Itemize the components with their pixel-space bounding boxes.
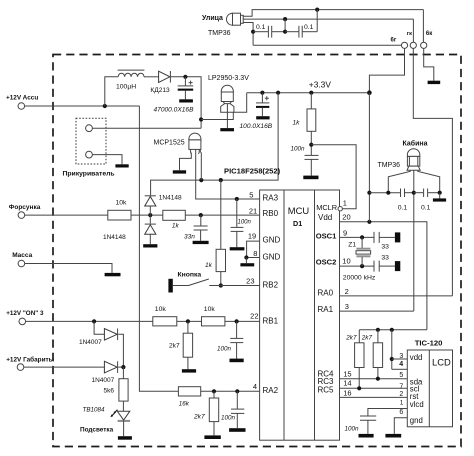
- svg-text:Форсунка: Форсунка: [9, 204, 41, 211]
- resistor 1k (MCLR pull-up): [293, 93, 316, 156]
- svg-text:vlcd: vlcd: [410, 400, 424, 409]
- capacitor 47000.0X16B electrolytic: [154, 77, 195, 114]
- svg-text:100n: 100n: [238, 220, 252, 226]
- wire inductor to diode: [144, 76, 159, 78]
- wire street pin3 vdd down: [243, 23, 253, 46]
- svg-text:7: 7: [399, 383, 403, 390]
- svg-text:5: 5: [399, 372, 403, 379]
- svg-text:GND: GND: [263, 253, 281, 262]
- node cabin ground end: [438, 191, 442, 195]
- svg-text:RA3: RA3: [263, 194, 279, 203]
- svg-text:100µH: 100µH: [116, 84, 136, 91]
- svg-text:ТВ1084: ТВ1084: [83, 406, 106, 413]
- wire cabin left leg: [388, 170, 410, 192]
- svg-text:21: 21: [249, 206, 257, 215]
- wire 10k-10k: [177, 320, 202, 322]
- svg-text:100n: 100n: [217, 345, 232, 352]
- svg-text:Z1: Z1: [348, 242, 356, 249]
- capacitor 100n (RB1): [217, 321, 244, 362]
- svg-text:4: 4: [253, 382, 257, 391]
- wire 16k to RA2: [201, 390, 260, 392]
- svg-text:1: 1: [343, 198, 347, 207]
- regulator LP2950-3.3V: [208, 75, 249, 131]
- ground lcd: [385, 434, 401, 438]
- svg-text:19: 19: [248, 231, 256, 240]
- svg-text:+12V Габариты: +12V Габариты: [6, 355, 54, 363]
- svg-text:LP2950-3.3V: LP2950-3.3V: [208, 75, 249, 82]
- svg-text:5k6: 5k6: [104, 387, 115, 394]
- svg-text:+12V Accu: +12V Accu: [6, 94, 38, 101]
- svg-text:гк: гк: [407, 31, 412, 37]
- node vdd feed: [390, 328, 394, 332]
- resistor 1k (RB2 pull-up): [205, 180, 226, 285]
- svg-text:16: 16: [343, 389, 351, 398]
- svg-text:RA0: RA0: [318, 289, 334, 298]
- svg-text:20: 20: [342, 213, 350, 222]
- node 3.3V branch down: [276, 91, 280, 95]
- node +12V / inductor tap: [103, 104, 107, 108]
- ground MCU GND pins: [240, 263, 254, 266]
- svg-text:Кнопка: Кнопка: [178, 272, 202, 279]
- wire lighter minus to ground: [92, 155, 122, 165]
- svg-text:0.1: 0.1: [398, 205, 408, 212]
- terminal 6g: [391, 38, 408, 49]
- svg-text:6: 6: [399, 409, 403, 416]
- capacitor 100n (MCLR): [291, 146, 319, 180]
- wire OSC2 line: [340, 265, 374, 267]
- wire GND pins bracket to ground: [247, 241, 260, 257]
- svg-text:100.0X16B: 100.0X16B: [240, 123, 273, 130]
- svg-text:33: 33: [381, 243, 389, 250]
- ground cabin sensor: [439, 193, 441, 199]
- svg-text:1N4148: 1N4148: [159, 195, 182, 202]
- wire Vdd to LCD pull-up rail: [340, 222, 427, 330]
- svg-text:ТМР36: ТМР36: [208, 30, 231, 37]
- ground lighter: [115, 164, 128, 167]
- svg-text:Прикуриватель: Прикуриватель: [63, 171, 115, 178]
- node street out tap: [283, 17, 287, 21]
- wire vdd feed to pins 3,4: [391, 330, 393, 370]
- wire street vdd to 6g terminal: [253, 44, 401, 46]
- svg-text:+3.3V: +3.3V: [309, 80, 332, 90]
- sensor TMP36 cabin (Kabina): [378, 139, 428, 170]
- svg-text:14: 14: [343, 379, 351, 388]
- wire lighter plus to input node riser: [92, 127, 201, 129]
- capacitor 0.1 cabin B: [414, 189, 440, 212]
- svg-text:100n: 100n: [221, 414, 236, 421]
- svg-text:9: 9: [343, 228, 347, 237]
- svg-text:8: 8: [253, 249, 257, 258]
- svg-text:RB0: RB0: [263, 209, 279, 218]
- svg-text:2k7: 2k7: [345, 335, 357, 342]
- svg-text:RA2: RA2: [263, 386, 279, 395]
- svg-text:100n: 100n: [345, 425, 360, 432]
- wire MCLR node to MCLR pin: [311, 145, 356, 209]
- node gnd-net riser: [315, 8, 319, 12]
- node 100.0X16B cap: [260, 91, 264, 95]
- dashed main-board border: [53, 55, 461, 447]
- diode 1N4148 upper clamp: [145, 195, 182, 215]
- wire RA1 line: [340, 310, 414, 312]
- node 47000uF cap: [183, 75, 187, 79]
- resistor 16k (RA2 top): [178, 387, 200, 408]
- wire 1k to RB0: [185, 214, 259, 216]
- capacitor 0.1 cabin A: [369, 189, 413, 212]
- wire scl line (RC3 pin14): [340, 387, 408, 389]
- svg-text:КД213: КД213: [150, 87, 170, 94]
- wire to RB1 pin: [225, 320, 260, 322]
- wire RB2 line: [209, 285, 259, 287]
- sensor TMP36 street (Ulitsa): [202, 13, 243, 37]
- node 33n tap: [199, 213, 203, 217]
- svg-text:MCP1525: MCP1525: [154, 140, 185, 147]
- wire ON to 10k chain: [26, 320, 153, 322]
- wire diode to regulator input corner: [171, 77, 201, 128]
- node RA2 divider: [212, 389, 216, 393]
- svg-text:20000 kHz: 20000 kHz: [343, 274, 376, 281]
- node clamp: [148, 213, 152, 217]
- wire cabin right leg: [418, 170, 440, 192]
- LCD module TIC-120: [407, 339, 452, 427]
- node 1k MCLR pull-up top: [309, 91, 313, 95]
- svg-text:0.1: 0.1: [256, 24, 266, 31]
- resistor 2k7 (RB1 divider low): [169, 321, 196, 372]
- svg-text:16k: 16k: [179, 401, 190, 408]
- terminal +12V Accu: [6, 94, 38, 109]
- svg-text:RA1: RA1: [318, 305, 334, 314]
- capacitor 33 (OSC2): [374, 255, 400, 272]
- MCU D1 PIC18F258(252) block: [260, 190, 340, 440]
- wire massa to ground: [25, 264, 112, 273]
- svg-text:2k7: 2k7: [193, 413, 205, 420]
- resistor 10k (injector): [108, 200, 131, 220]
- wire vlcd to cap: [368, 409, 407, 416]
- terminal Massa (ground): [12, 252, 32, 267]
- svg-text:10k: 10k: [116, 200, 128, 207]
- svg-text:47000.0X16B: 47000.0X16B: [154, 107, 195, 114]
- terminal +12V Gabarity: [6, 355, 54, 370]
- svg-text:10: 10: [342, 257, 350, 266]
- svg-text:100n: 100n: [291, 146, 306, 153]
- svg-text:0.1: 0.1: [304, 24, 314, 31]
- LED TB1084 backlight: [80, 401, 132, 440]
- wire sda line (RC4 pin15): [340, 378, 408, 380]
- wire cabin middle leg to RA1 riser: [413, 170, 415, 311]
- crystal Z1 20000 kHz: [343, 237, 376, 281]
- resistor 1k (RB0 series): [163, 210, 186, 229]
- terminal gk: [407, 31, 417, 49]
- lighter plus contact: [86, 125, 93, 132]
- terminal +12V ON: [6, 310, 44, 325]
- wire LCD pull-up rail: [359, 329, 427, 331]
- capacitor 100n (vlcd): [345, 416, 377, 438]
- svg-text:LCD: LCD: [432, 357, 451, 368]
- node ON diode tap: [92, 319, 96, 323]
- svg-text:TMP36: TMP36: [378, 162, 401, 169]
- svg-text:OSC2: OSC2: [316, 257, 337, 266]
- svg-text:RC5: RC5: [318, 386, 335, 395]
- svg-text:Улица: Улица: [202, 15, 223, 22]
- svg-text:Кабина: Кабина: [403, 139, 428, 147]
- wire 10k to clamp node: [131, 214, 163, 216]
- wire street pin1 (gnd net top run): [243, 10, 423, 17]
- node MCLR RC node: [309, 143, 313, 147]
- wire RA0 line: [340, 295, 453, 297]
- svg-text:D1: D1: [293, 219, 302, 228]
- cigarette lighter dotted box: [63, 118, 115, 177]
- svg-text:10k: 10k: [155, 306, 167, 313]
- svg-text:Vdd: Vdd: [318, 213, 332, 222]
- svg-text:3: 3: [399, 353, 403, 360]
- svg-text:4: 4: [399, 361, 403, 368]
- svg-text:2: 2: [399, 391, 403, 398]
- node regulator input: [199, 117, 203, 121]
- inductor 100uH: [116, 70, 144, 90]
- capacitor 0.1 street A: [253, 24, 285, 37]
- svg-text:2k7: 2k7: [361, 335, 373, 342]
- resistor 10k (RB1 a): [153, 306, 177, 326]
- svg-text:1N4148: 1N4148: [103, 234, 126, 241]
- diode 1N4148 lower clamp: [103, 215, 157, 247]
- wire out tap down to caps: [284, 19, 286, 32]
- svg-text:Подсветка: Подсветка: [80, 427, 114, 434]
- wire 6k to board ground: [424, 48, 434, 80]
- svg-text:22: 22: [250, 312, 258, 321]
- svg-text:5: 5: [249, 190, 253, 199]
- wire riser from cap chain to top run: [316, 10, 318, 32]
- wire injector to 10k: [25, 214, 108, 216]
- node backlight feed: [121, 365, 125, 369]
- svg-text:RB2: RB2: [263, 281, 279, 290]
- ground massa: [105, 273, 121, 276]
- node pull-up 2: [376, 328, 380, 332]
- wire top run down to 6k: [422, 10, 424, 43]
- svg-text:OSC1: OSC1: [316, 231, 337, 240]
- wire input node to LP2950: [201, 93, 247, 120]
- wire 6g to 3.3V junction: [369, 48, 404, 92]
- wire lcd gnd: [394, 418, 407, 434]
- capacitor 100n (RA2): [221, 391, 246, 432]
- switch Knopka (button): [168, 272, 208, 293]
- svg-text:vdd: vdd: [410, 353, 423, 362]
- capacitor 0.1 street B: [285, 24, 317, 37]
- wire gk down to RA0 riser: [413, 48, 452, 296]
- +3.3V rail: [247, 92, 370, 94]
- svg-text:1k: 1k: [172, 222, 180, 229]
- svg-text:1k: 1k: [293, 120, 301, 127]
- svg-text:Масса: Масса: [12, 252, 32, 259]
- svg-text:3: 3: [345, 302, 349, 311]
- node cabin vdd: [367, 191, 371, 195]
- svg-text:1: 1: [400, 399, 404, 406]
- node RB1 100n tap: [235, 319, 239, 323]
- svg-text:33n: 33n: [184, 233, 195, 240]
- svg-text:0.1: 0.1: [421, 205, 431, 212]
- node MCP1525 Vdd: [199, 178, 203, 182]
- capacitor 100.0X16B electrolytic: [240, 93, 273, 130]
- svg-text:2k7: 2k7: [169, 343, 180, 350]
- node cabin out / left leg joints: [386, 191, 390, 195]
- wire street pin2 out: [243, 18, 413, 20]
- node RB1 divider: [186, 319, 190, 323]
- node caps middle: [283, 30, 287, 34]
- svg-text:15: 15: [343, 370, 351, 379]
- svg-text:+12V "ON" 3: +12V "ON" 3: [6, 310, 44, 317]
- wire 3.3V feed to clamp/Vdd line: [151, 93, 279, 196]
- wire up to inductor: [105, 77, 118, 106]
- svg-text:PIC18F258(252): PIC18F258(252): [224, 167, 281, 176]
- svg-text:23: 23: [246, 276, 254, 285]
- voltage reference MCP1525: [154, 133, 260, 199]
- svg-text:TIC-120: TIC-120: [415, 339, 443, 348]
- svg-text:10k: 10k: [204, 306, 216, 313]
- ground 6k: [428, 81, 441, 84]
- node caps-line left: [251, 30, 255, 34]
- capacitor 100n (RA3/Vref): [230, 199, 252, 250]
- svg-text:6г: 6г: [391, 38, 397, 44]
- node 3.3V / sensor vdd junction: [367, 90, 372, 95]
- svg-text:MCU: MCU: [288, 205, 310, 216]
- wire rst line (RC5 pin16): [340, 396, 408, 398]
- svg-text:33: 33: [381, 255, 389, 262]
- wire street out down to gk: [412, 19, 414, 42]
- node RB2: [219, 283, 223, 287]
- resistor 5k6: [104, 367, 129, 401]
- svg-text:RB1: RB1: [263, 316, 279, 325]
- wire 3.3V down to cabin sensor and Vdd pin: [368, 93, 370, 222]
- svg-text:MCLR: MCLR: [316, 203, 337, 212]
- capacitor 33 (OSC1): [374, 232, 400, 250]
- diode 1N4007 (from ON): [79, 321, 123, 367]
- svg-text:6к: 6к: [426, 31, 432, 37]
- svg-text:1N4007: 1N4007: [92, 377, 115, 384]
- resistor 2k7 (sda pull-up): [361, 330, 383, 379]
- diode 1N4007 (from gabarity): [24, 361, 124, 384]
- lighter minus contact: [86, 151, 93, 158]
- wire OSC1 line: [340, 236, 374, 238]
- resistor 2k7 (RA2 low): [193, 391, 221, 439]
- svg-text:GND: GND: [263, 235, 281, 244]
- node RA2 100n tap: [235, 389, 239, 393]
- capacitor 33n: [184, 215, 209, 244]
- wire +12V Accu to battery-sense riser: [25, 105, 140, 107]
- svg-text:gnd: gnd: [410, 416, 423, 425]
- wire battery sense riser down to 16k (RA2 divider): [139, 106, 178, 391]
- svg-text:2: 2: [345, 287, 349, 296]
- terminal Forsunka (injector): [9, 204, 41, 219]
- node button pull-up tap: [219, 178, 223, 182]
- node RA3 100n tap: [235, 197, 239, 201]
- svg-text:1N4007: 1N4007: [79, 339, 102, 346]
- diode KD213: [150, 71, 170, 94]
- resistor 2k7 (scl pull-up): [345, 330, 364, 389]
- terminal 6k: [421, 31, 433, 49]
- resistor 10k (RB1 b): [202, 306, 225, 326]
- svg-text:1k: 1k: [205, 262, 213, 269]
